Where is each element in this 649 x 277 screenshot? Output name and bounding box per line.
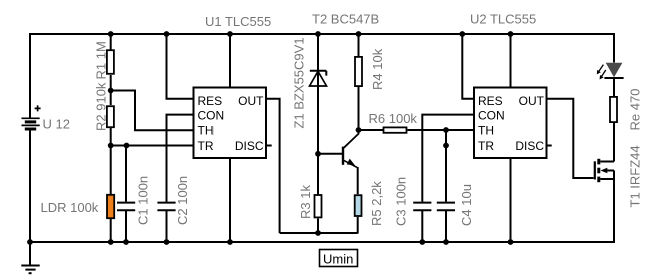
wire R1 top <box>110 34 112 50</box>
svg-text:TH: TH <box>478 124 494 138</box>
IC U2 TLC555 timer <box>474 88 547 159</box>
wire Z1 top <box>317 34 319 71</box>
wire TR line <box>111 145 194 147</box>
svg-text:R6 100k: R6 100k <box>369 111 418 126</box>
wire R2 bottom to TR node <box>110 128 112 194</box>
resistor Re 470 <box>610 97 617 122</box>
junction C2 ground <box>164 239 170 245</box>
wire bottom ground rail <box>30 241 614 243</box>
svg-text:R2 910k: R2 910k <box>94 82 109 131</box>
wire U2 DISC stub <box>547 145 552 147</box>
wire R4 bottom to collector node <box>358 87 360 131</box>
wire R4 top <box>358 34 360 56</box>
capacitor C2 <box>157 203 175 211</box>
wire LDR bottom <box>110 219 112 242</box>
transistor T2 BC547B <box>343 130 359 168</box>
junction U1 RES rail <box>164 31 170 37</box>
wire top supply rail <box>30 33 614 35</box>
capacitor C1 <box>117 203 135 211</box>
wire Z1 bottom to base node <box>317 71 319 195</box>
resistor R1 <box>107 50 114 74</box>
node R1-R2 <box>108 88 114 94</box>
wire U2 OUT to gate <box>547 99 594 178</box>
svg-text:C3 100n: C3 100n <box>394 177 409 226</box>
wire U1 RES to rail <box>167 34 194 99</box>
junction U2 TH <box>443 127 449 133</box>
svg-text:OUT: OUT <box>238 94 264 108</box>
svg-text:CON: CON <box>198 109 225 123</box>
label box Umin <box>320 250 358 267</box>
junction U2 GND rail <box>508 239 514 245</box>
junction R1 top rail <box>108 31 114 37</box>
IC U1 TLC555 timer <box>194 88 267 159</box>
svg-text:C4 10u: C4 10u <box>459 184 474 226</box>
wire base wire <box>318 153 342 155</box>
LDR 100k photoresistor <box>107 195 114 218</box>
node Umin R3 bottom <box>315 230 321 236</box>
svg-text:Re 470: Re 470 <box>628 89 643 131</box>
svg-text:TR: TR <box>198 139 214 153</box>
svg-text:T1 IRFZ44: T1 IRFZ44 <box>628 145 643 207</box>
svg-text:Z1 BZX55C9V1: Z1 BZX55C9V1 <box>292 37 307 128</box>
wire battery to ground rail <box>29 130 31 242</box>
resistor R6 (horizontal) <box>384 127 407 132</box>
wire Re to drain <box>613 123 615 162</box>
junction battery ground rail <box>27 239 33 245</box>
junction U2 RES rail <box>459 31 465 37</box>
wire U1 VCC pin <box>229 34 231 88</box>
junction Z1 rail <box>315 31 321 37</box>
svg-text:U1 TLC555: U1 TLC555 <box>205 14 271 29</box>
svg-text:CON: CON <box>478 109 505 123</box>
svg-text:Umin: Umin <box>323 251 353 266</box>
wire ground stub <box>29 242 31 265</box>
svg-text:R4 10k: R4 10k <box>370 48 385 90</box>
ground <box>21 266 39 274</box>
svg-text:DISC: DISC <box>515 139 544 153</box>
wire U2 RES to rail <box>462 34 474 99</box>
wire U1 OUT down to Umin line <box>266 99 280 233</box>
svg-text:C1 100n: C1 100n <box>136 176 151 225</box>
LED arrows <box>598 65 606 78</box>
resistor R5 (blue) <box>355 195 362 216</box>
svg-text:DISC: DISC <box>235 139 264 153</box>
wire U1 DISC stub <box>266 145 272 147</box>
LED <box>606 63 623 77</box>
junction C1 ground <box>123 239 129 245</box>
wire R6 left lead <box>359 129 384 131</box>
svg-text:OUT: OUT <box>519 94 545 108</box>
junction C1 top <box>124 143 130 149</box>
cursor artifact after TH <box>212 127 214 136</box>
junction LDR ground <box>108 239 114 245</box>
wire battery drop <box>29 33 31 118</box>
junction C4 ground <box>443 239 449 245</box>
wire emitter down to R5 <box>357 167 359 194</box>
svg-text:R1 1M: R1 1M <box>94 41 109 79</box>
wire R5 bottom <box>357 217 359 234</box>
wire U2 GND pin <box>510 158 512 242</box>
resistor R2 <box>107 106 114 127</box>
svg-text:R3 1k: R3 1k <box>298 185 313 219</box>
junction U1 GND rail <box>227 239 233 245</box>
node R2-LDR-TR <box>108 143 114 149</box>
wire U2 VCC pin <box>510 34 512 88</box>
node R4-collector-R6 <box>356 127 362 133</box>
wire U1 GND pin <box>229 158 231 242</box>
wire U1 CON to C2 <box>167 115 194 242</box>
junction U1 VCC rail <box>227 31 233 37</box>
svg-text:TH: TH <box>198 124 214 138</box>
wire C1 leads <box>125 146 127 243</box>
junction C3 ground <box>419 239 425 245</box>
resistor R3 <box>315 195 322 217</box>
wire LED top from rail <box>613 33 615 63</box>
resistor R4 <box>355 57 362 86</box>
wire LED cathode to Re <box>613 78 615 96</box>
battery U 12V <box>22 105 41 129</box>
wire R3 bottom <box>317 218 319 233</box>
wire source to ground rail <box>613 171 615 244</box>
svg-text:U 12: U 12 <box>43 117 70 132</box>
zener diode Z1 <box>310 71 327 86</box>
wire TH branch <box>111 91 194 131</box>
junction U2 TR <box>443 143 449 149</box>
svg-text:RES: RES <box>478 94 503 108</box>
svg-text:C2 100n: C2 100n <box>175 176 190 225</box>
junction R4 rail <box>356 31 362 37</box>
capacitor C3 <box>413 203 431 211</box>
wire U2 TH-TR tie to C4 <box>445 130 447 242</box>
svg-text:T2 BC547B: T2 BC547B <box>312 12 379 27</box>
wire U2 CON to C3 <box>422 115 474 242</box>
junction U2 VCC rail <box>508 31 514 37</box>
svg-text:R5 2,2k: R5 2,2k <box>369 181 384 226</box>
node Z1-R3-base <box>315 151 321 157</box>
svg-text:TR: TR <box>478 139 494 153</box>
transistor T1 IRFZ44 MOSFET <box>595 159 614 182</box>
wire Umin line <box>280 232 358 234</box>
svg-text:LDR 100k: LDR 100k <box>41 200 99 215</box>
svg-text:RES: RES <box>198 94 223 108</box>
svg-text:U2 TLC555: U2 TLC555 <box>470 12 536 27</box>
wire R6 right to U2 TH <box>408 129 475 131</box>
capacitor C4 <box>437 203 455 211</box>
wire R1 bottom to node <box>110 75 112 105</box>
